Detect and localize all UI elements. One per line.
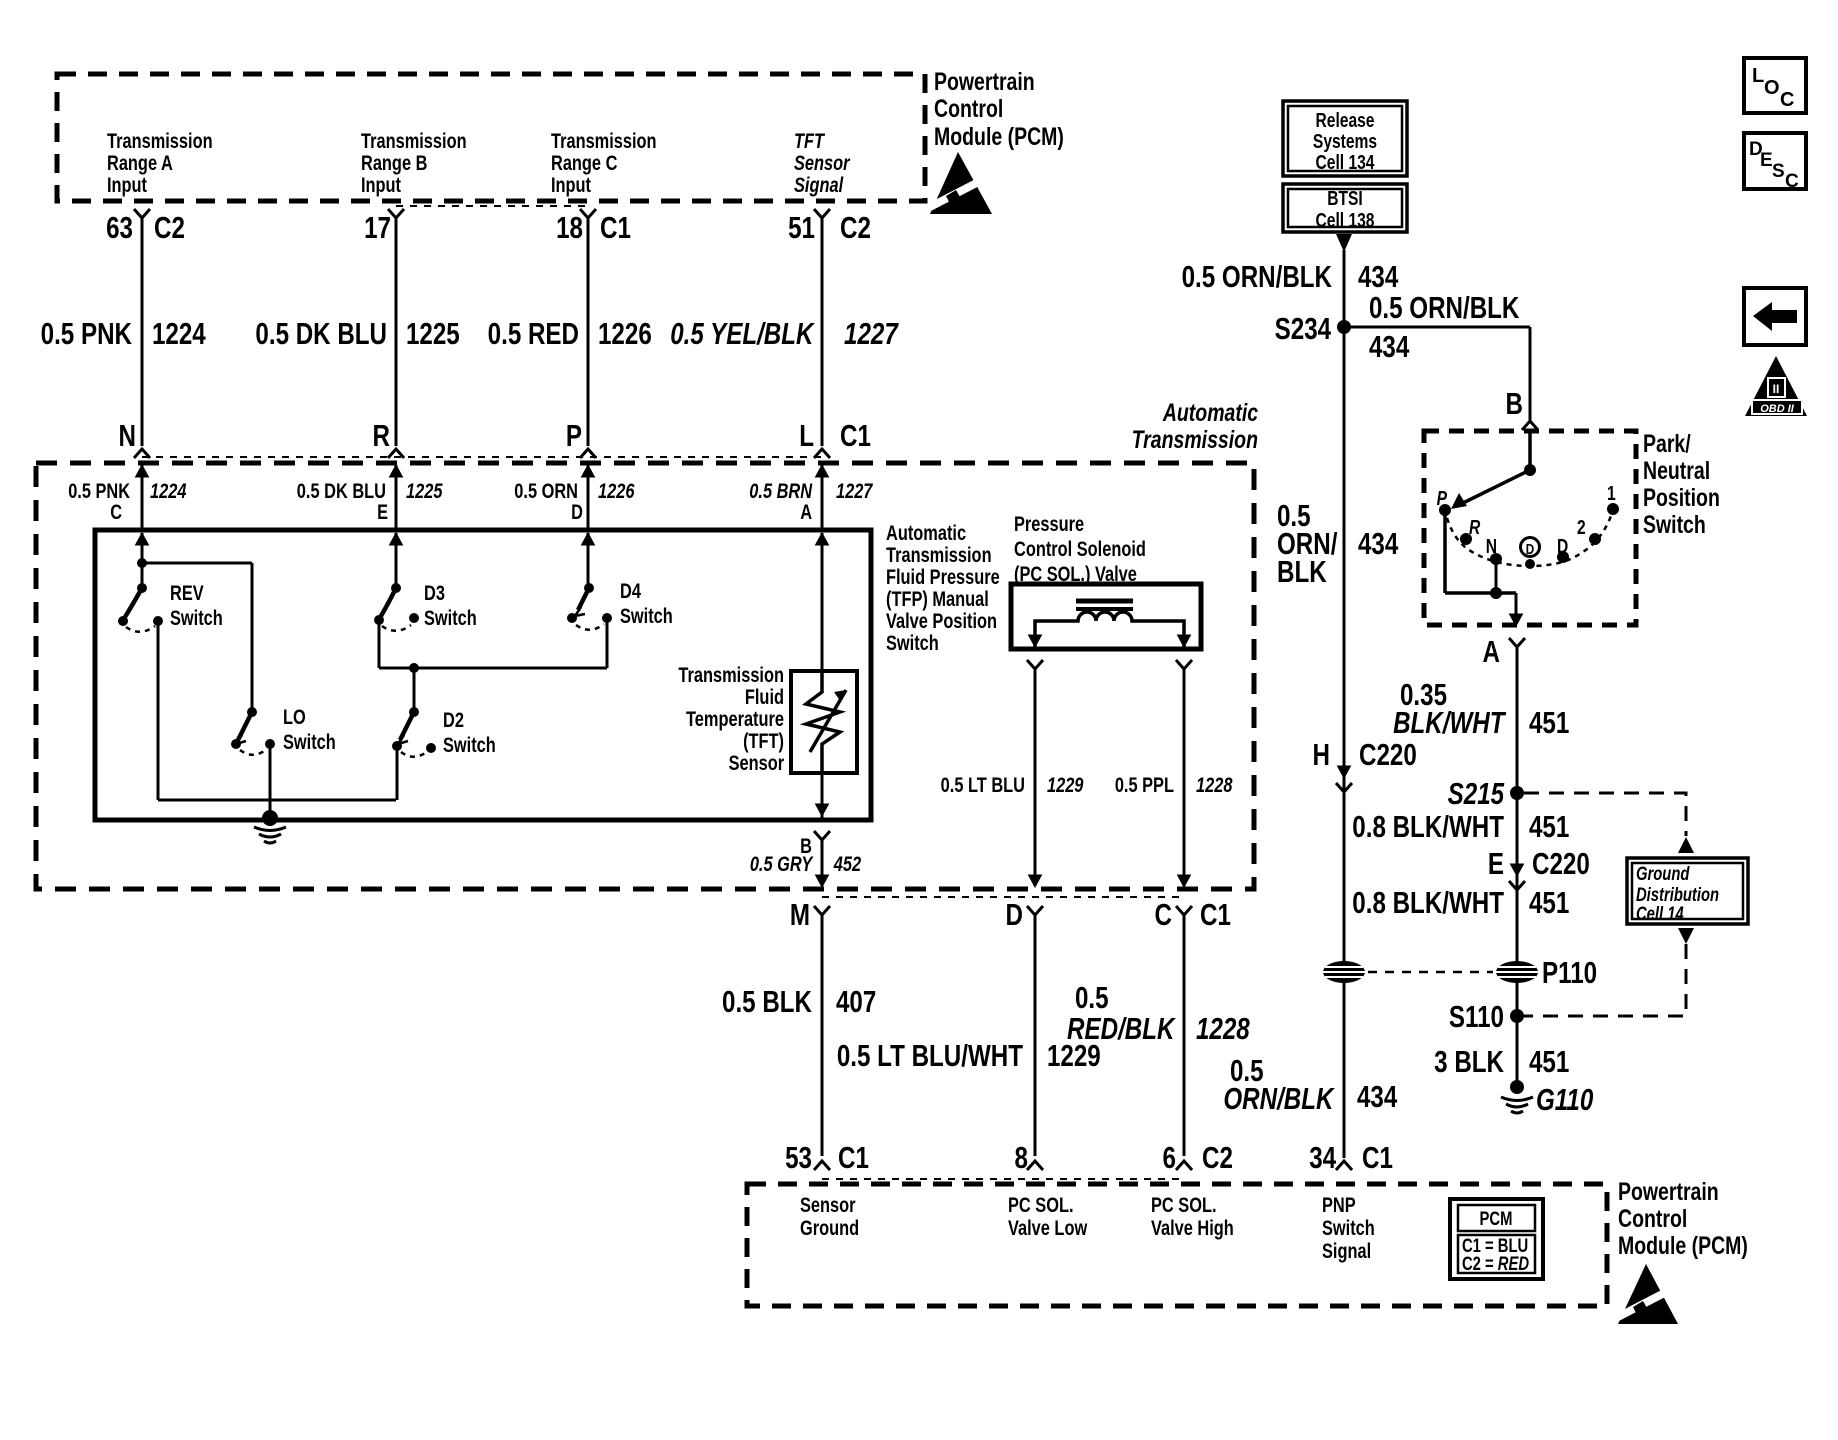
svg-text:Cell 14: Cell 14 <box>1636 903 1684 924</box>
svg-text:451: 451 <box>1529 1044 1569 1079</box>
svg-text:C1: C1 <box>1200 897 1231 932</box>
grommet P110 left <box>1323 961 1365 983</box>
DESC navigation icon <box>1744 133 1806 189</box>
svg-text:D4: D4 <box>620 579 641 602</box>
svg-text:53: 53 <box>785 1140 812 1175</box>
svg-text:Powertrain: Powertrain <box>1618 1178 1719 1206</box>
solenoid coil L1 <box>1035 612 1184 647</box>
wire D4 to bus <box>606 618 609 668</box>
svg-text:Switch: Switch <box>424 606 477 629</box>
svg-text:Valve Position: Valve Position <box>886 609 997 632</box>
svg-text:BLK/WHT: BLK/WHT <box>1393 705 1506 740</box>
svg-text:C: C <box>110 500 122 523</box>
svg-text:Control: Control <box>1618 1205 1687 1233</box>
svg-text:N: N <box>1486 535 1497 557</box>
svg-text:434: 434 <box>1369 329 1410 364</box>
svg-text:Switch: Switch <box>283 730 336 753</box>
svg-text:C2 = RED: C2 = RED <box>1462 1253 1529 1274</box>
svg-text:Switch: Switch <box>1322 1216 1375 1239</box>
svg-text:1228: 1228 <box>1196 773 1233 796</box>
svg-text:R: R <box>1469 516 1480 538</box>
solenoid core bars <box>1076 599 1133 604</box>
svg-text:H: H <box>1313 737 1330 772</box>
svg-text:0.5 PNK: 0.5 PNK <box>41 316 132 351</box>
contact D circled <box>1521 538 1540 557</box>
thin splice line under N R P L <box>142 456 822 458</box>
wire LO to ground node <box>269 744 272 818</box>
contact P <box>1439 504 1451 516</box>
wire D3 to bus <box>378 620 381 668</box>
svg-text:C1: C1 <box>840 418 871 453</box>
svg-text:Switch: Switch <box>170 606 223 629</box>
svg-text:Systems: Systems <box>1313 130 1377 152</box>
wire D inside TFP box <box>582 533 595 545</box>
wire 1229 lower (0.5 LT BLU/WHT) <box>1034 913 1037 1156</box>
connector pin 51 C2 <box>814 209 830 218</box>
svg-text:II: II <box>1773 382 1780 396</box>
junction node D2 feed <box>409 663 419 673</box>
svg-text:C2: C2 <box>154 210 185 245</box>
svg-text:Ground: Ground <box>800 1216 859 1239</box>
svg-text:8: 8 <box>1015 1140 1028 1175</box>
svg-text:D2: D2 <box>443 708 464 731</box>
svg-text:PC SOL.: PC SOL. <box>1008 1193 1074 1216</box>
svg-text:Module (PCM): Module (PCM) <box>1618 1232 1748 1260</box>
svg-text:Signal: Signal <box>1322 1239 1371 1262</box>
TFP manual valve position switch box <box>95 530 871 820</box>
svg-text:0.5 ORN/BLK: 0.5 ORN/BLK <box>1369 290 1519 325</box>
svg-text:2: 2 <box>1577 516 1586 538</box>
thin splice line below AT box <box>822 896 1184 898</box>
dashed reference S215 to Ground Distribution <box>1524 793 1686 836</box>
svg-text:451: 451 <box>1529 705 1569 740</box>
PCM module box (bottom) <box>747 1184 1607 1306</box>
svg-text:Input: Input <box>107 173 148 196</box>
svg-text:C2: C2 <box>840 210 871 245</box>
wire 452 (0.5 GRY) <box>821 838 824 886</box>
svg-text:M: M <box>790 897 810 932</box>
PC SOL valve box <box>1011 584 1201 649</box>
svg-text:1225: 1225 <box>406 479 443 502</box>
ground G110 <box>1510 1080 1524 1094</box>
svg-text:C1: C1 <box>600 210 631 245</box>
svg-text:0.5 PNK: 0.5 PNK <box>68 479 130 502</box>
svg-text:D: D <box>1006 897 1023 932</box>
svg-text:0.5 BLK: 0.5 BLK <box>722 984 812 1019</box>
svg-text:E: E <box>1488 846 1504 881</box>
svg-text:0.8 BLK/WHT: 0.8 BLK/WHT <box>1352 885 1504 920</box>
svg-text:1224: 1224 <box>152 316 206 351</box>
wire 1229 (0.5 LT BLU) <box>1034 667 1037 886</box>
svg-text:34: 34 <box>1309 1140 1336 1175</box>
svg-text:LO: LO <box>283 705 306 728</box>
terminal A connector <box>1509 638 1525 647</box>
wire 1226 upper (0.5 RED) <box>587 216 590 446</box>
svg-text:C220: C220 <box>1532 846 1590 881</box>
back arrow icon <box>1744 288 1806 345</box>
svg-text:17: 17 <box>364 210 391 245</box>
PCM connector legend box <box>1450 1199 1543 1279</box>
svg-text:3 BLK: 3 BLK <box>1434 1044 1504 1079</box>
terminal P connector <box>580 449 596 458</box>
svg-text:P: P <box>1437 487 1447 509</box>
wire 1228 (0.5 PPL) <box>1183 667 1186 886</box>
grommet P110 right <box>1496 961 1538 983</box>
pin 8 connector <box>1027 1161 1043 1170</box>
wire branch S234 to PNP switch pin B <box>1344 326 1530 329</box>
svg-text:C1: C1 <box>1362 1140 1393 1175</box>
svg-text:Fluid: Fluid <box>745 685 784 708</box>
contact 1 <box>1607 503 1619 515</box>
svg-text:Park/: Park/ <box>1643 430 1691 458</box>
svg-text:Valve Low: Valve Low <box>1008 1216 1087 1239</box>
wire A to TFP box bottom <box>821 773 824 818</box>
svg-text:(TFP) Manual: (TFP) Manual <box>886 587 989 610</box>
arrow into AT wire D <box>582 465 595 477</box>
svg-text:Pressure: Pressure <box>1014 512 1084 535</box>
svg-text:PC SOL.: PC SOL. <box>1151 1193 1217 1216</box>
PNP contact arc <box>1447 513 1612 566</box>
connector pin 17 <box>388 209 404 218</box>
arrow into AT wire E <box>390 465 403 477</box>
svg-text:451: 451 <box>1529 885 1569 920</box>
contact R <box>1460 533 1472 545</box>
svg-text:Range A: Range A <box>107 151 173 174</box>
svg-text:0.5 DK BLU: 0.5 DK BLU <box>297 479 386 502</box>
PNP selector wiper <box>1528 431 1532 470</box>
wire 407 (0.5 BLK) <box>821 913 824 1156</box>
svg-text:L: L <box>1752 65 1764 87</box>
wire 451 (0.35 BLK/WHT) <box>1516 647 1519 1087</box>
svg-text:BLK: BLK <box>1277 554 1327 589</box>
svg-text:Automatic: Automatic <box>886 521 966 544</box>
connector pin 63 C2 <box>134 209 150 218</box>
svg-text:Transmission: Transmission <box>678 663 784 686</box>
wire from contact P <box>1443 510 1447 593</box>
svg-text:Signal: Signal <box>794 173 844 196</box>
svg-text:0.5 ORN/BLK: 0.5 ORN/BLK <box>1182 259 1332 294</box>
svg-text:Switch: Switch <box>443 733 496 756</box>
ground symbol TFP <box>254 827 286 843</box>
svg-text:G110: G110 <box>1536 1082 1594 1117</box>
svg-text:Control Solenoid: Control Solenoid <box>1014 537 1146 560</box>
svg-text:P110: P110 <box>1542 955 1597 990</box>
svg-text:E: E <box>1760 150 1773 171</box>
D2 switch <box>409 707 419 717</box>
svg-text:Powertrain: Powertrain <box>934 68 1035 96</box>
svg-text:Range B: Range B <box>361 151 427 174</box>
Ground Distribution Cell 14 box <box>1627 858 1748 924</box>
Release Systems Cell 134 box <box>1283 101 1407 176</box>
wire to terminal A <box>1515 593 1518 624</box>
svg-text:0.5 BRN: 0.5 BRN <box>749 479 812 502</box>
svg-text:Sensor: Sensor <box>794 151 851 174</box>
svg-text:1229: 1229 <box>1047 773 1084 796</box>
svg-text:ORN/BLK: ORN/BLK <box>1223 1081 1335 1116</box>
svg-text:1226: 1226 <box>598 316 652 351</box>
svg-text:0.5 YEL/BLK: 0.5 YEL/BLK <box>670 316 815 351</box>
svg-text:1227: 1227 <box>844 316 899 351</box>
wire 1224 upper (0.5 PNK) <box>141 216 144 446</box>
svg-text:L: L <box>799 418 814 453</box>
svg-text:18: 18 <box>556 210 583 245</box>
svg-text:Transmission: Transmission <box>361 129 467 152</box>
svg-text:TFT: TFT <box>794 129 825 152</box>
svg-text:C2: C2 <box>1202 1140 1233 1175</box>
svg-text:Switch: Switch <box>620 604 673 627</box>
pin 53 C1 connector <box>814 1161 830 1170</box>
svg-text:BTSI: BTSI <box>1327 187 1363 209</box>
svg-text:Position: Position <box>1643 484 1720 512</box>
svg-text:Module (PCM): Module (PCM) <box>934 123 1064 151</box>
svg-text:Ground: Ground <box>1636 863 1690 884</box>
svg-text:OBD II: OBD II <box>1760 403 1795 415</box>
svg-text:1227: 1227 <box>836 479 874 502</box>
junction node in PNP switch <box>1490 587 1502 599</box>
svg-text:S215: S215 <box>1448 776 1505 811</box>
terminal B connector <box>1522 421 1538 430</box>
pin 34 C1 connector <box>1336 1161 1352 1170</box>
svg-text:0.5 LT BLU/WHT: 0.5 LT BLU/WHT <box>837 1038 1023 1073</box>
connector below PC SOL right <box>1176 660 1192 669</box>
svg-text:RED/BLK: RED/BLK <box>1067 1011 1176 1046</box>
OBD II icon <box>1745 356 1807 416</box>
svg-text:PNP: PNP <box>1322 1193 1356 1216</box>
LOC navigation icon <box>1744 58 1806 113</box>
svg-text:0.5 DK BLU: 0.5 DK BLU <box>255 316 387 351</box>
svg-text:Transmission: Transmission <box>1132 426 1258 454</box>
svg-text:Cell 138: Cell 138 <box>1316 209 1375 231</box>
svg-text:452: 452 <box>833 852 862 875</box>
contact D <box>1557 551 1569 563</box>
dashed reference Ground Distribution to S110 <box>1678 928 1694 944</box>
svg-text:1225: 1225 <box>406 316 460 351</box>
svg-text:Switch: Switch <box>1643 511 1706 539</box>
D3 switch <box>391 583 401 593</box>
connector pin 18 C1 <box>580 209 596 218</box>
terminal N connector <box>134 449 150 458</box>
terminal D connector <box>1027 906 1043 915</box>
arrow out of PC SOL pin low <box>1029 635 1042 647</box>
TFT sensor R1 box <box>791 671 857 773</box>
contact 2 <box>1589 533 1601 545</box>
wire from REV switch to ground bus <box>157 621 160 800</box>
svg-text:S110: S110 <box>1449 999 1504 1034</box>
arrow out of PC SOL pin high <box>1178 635 1191 647</box>
svg-text:Cell 134: Cell 134 <box>1316 151 1375 173</box>
svg-text:Switch: Switch <box>886 631 939 654</box>
svg-text:Valve High: Valve High <box>1151 1216 1234 1239</box>
svg-text:63: 63 <box>106 210 133 245</box>
svg-text:1224: 1224 <box>150 479 187 502</box>
svg-text:Release: Release <box>1316 109 1375 131</box>
ESD sensitivity symbol top <box>930 152 992 214</box>
svg-text:A: A <box>1483 634 1500 669</box>
pin 6 C2 connector <box>1176 1161 1192 1170</box>
arrow into AT wire A <box>816 465 829 477</box>
svg-text:S234: S234 <box>1275 311 1332 346</box>
svg-text:0.5 PPL: 0.5 PPL <box>1115 773 1174 796</box>
contact N <box>1490 553 1502 565</box>
wire from contact N <box>1495 559 1498 593</box>
ESD sensitivity symbol bottom <box>1618 1264 1678 1324</box>
branch wire to LO switch <box>142 562 252 565</box>
wire 434 (0.5 ORN/BLK) PNP feed <box>1343 250 1346 1158</box>
wire D2 to ground bus <box>396 746 399 800</box>
svg-text:451: 451 <box>1529 809 1569 844</box>
svg-text:E: E <box>377 500 388 523</box>
svg-text:(TFT): (TFT) <box>743 729 784 752</box>
arrow from BTSI box down <box>1336 234 1352 252</box>
svg-text:0.5 RED: 0.5 RED <box>488 316 579 351</box>
Park/Neutral Position Switch box <box>1424 431 1636 625</box>
svg-text:R: R <box>373 418 390 453</box>
svg-text:6: 6 <box>1163 1140 1176 1175</box>
svg-text:Automatic: Automatic <box>1162 399 1259 427</box>
terminal C C1 connector <box>1176 906 1192 915</box>
thin splice line above bottom PCM box <box>822 1178 1184 1180</box>
svg-text:S: S <box>1772 161 1785 182</box>
ground junction dot <box>262 810 278 826</box>
svg-text:D3: D3 <box>424 581 445 604</box>
svg-text:0.8 BLK/WHT: 0.8 BLK/WHT <box>1352 809 1504 844</box>
svg-text:PCM: PCM <box>1480 1208 1513 1229</box>
svg-text:0.5 GRY: 0.5 GRY <box>750 852 814 875</box>
svg-text:434: 434 <box>1357 1079 1398 1114</box>
svg-text:1226: 1226 <box>598 479 635 502</box>
svg-text:Neutral: Neutral <box>1643 457 1710 485</box>
svg-text:Sensor: Sensor <box>800 1193 856 1216</box>
svg-text:B: B <box>1506 386 1523 421</box>
svg-text:Input: Input <box>361 173 402 196</box>
svg-text:0.5 LT BLU: 0.5 LT BLU <box>941 773 1025 796</box>
svg-text:REV: REV <box>170 581 204 604</box>
svg-text:407: 407 <box>836 984 876 1019</box>
D4 switch <box>584 583 594 593</box>
terminal L C1 connector <box>814 449 830 458</box>
svg-text:D: D <box>1557 535 1568 557</box>
svg-text:0.5: 0.5 <box>1075 980 1109 1015</box>
svg-text:N: N <box>119 418 136 453</box>
svg-text:D: D <box>1526 541 1535 558</box>
svg-text:Control: Control <box>934 95 1003 123</box>
terminal M connector <box>814 906 830 915</box>
svg-text:C: C <box>1155 897 1172 932</box>
svg-text:Transmission: Transmission <box>107 129 213 152</box>
dashed link between P110 grommets <box>1368 971 1493 974</box>
wire 1227 upper (0.5 YEL/BLK) <box>821 216 824 446</box>
REV switch <box>137 583 147 593</box>
Automatic Transmission box <box>36 463 1254 889</box>
splice S215 <box>1510 786 1524 800</box>
svg-text:0.5 ORN: 0.5 ORN <box>514 479 578 502</box>
junction node wire C <box>137 558 147 568</box>
svg-text:A: A <box>800 500 812 523</box>
svg-text:Sensor: Sensor <box>729 751 785 774</box>
LO switch <box>247 707 257 717</box>
svg-text:Range C: Range C <box>551 151 618 174</box>
wire A inside TFP box <box>816 533 829 545</box>
svg-text:Transmission: Transmission <box>551 129 657 152</box>
arrow into AT wire C <box>136 465 149 477</box>
svg-text:51: 51 <box>788 210 815 245</box>
wire E inside TFP box <box>390 533 403 545</box>
svg-text:Transmission: Transmission <box>886 543 992 566</box>
svg-text:C: C <box>1780 89 1794 111</box>
svg-text:1228: 1228 <box>1196 1011 1250 1046</box>
svg-text:Fluid Pressure: Fluid Pressure <box>886 565 1000 588</box>
svg-text:P: P <box>566 418 582 453</box>
terminal B connector <box>814 831 830 840</box>
svg-text:434: 434 <box>1358 259 1399 294</box>
svg-text:Temperature: Temperature <box>686 707 784 730</box>
splice S234 <box>1337 320 1351 334</box>
BTSI Cell 138 box <box>1283 184 1407 232</box>
svg-text:C: C <box>1785 171 1799 192</box>
terminal R connector <box>388 449 404 458</box>
svg-text:D: D <box>571 500 583 523</box>
svg-text:434: 434 <box>1358 526 1399 561</box>
PCM module box (top) <box>57 74 925 201</box>
svg-text:O: O <box>1764 77 1780 99</box>
wire C inside TFP box <box>136 533 149 545</box>
connector below PC SOL left <box>1027 660 1043 669</box>
svg-text:C1: C1 <box>838 1140 869 1175</box>
wire 1228 lower (0.5 RED/BLK) <box>1183 913 1186 1156</box>
TFT sensor thermistor element <box>806 671 840 773</box>
svg-text:Input: Input <box>551 173 592 196</box>
svg-text:C220: C220 <box>1359 737 1417 772</box>
splice S110 <box>1510 1009 1524 1023</box>
thin splice line between pins 17 and 18 <box>396 205 588 207</box>
wire 1225 upper (0.5 DK BLU) <box>395 216 398 446</box>
svg-text:1: 1 <box>1607 482 1616 504</box>
